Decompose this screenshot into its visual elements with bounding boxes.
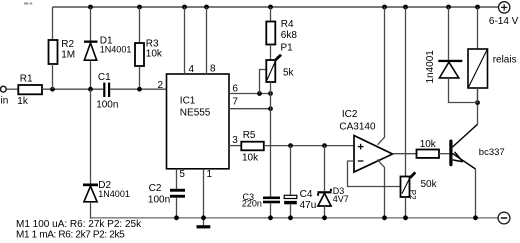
transistor Q1 bc337: [449, 124, 477, 169]
diode D1: [84, 41, 98, 61]
node junction P1 bottom pin6: [268, 91, 273, 96]
diode D4 1n4001 flyback: [438, 60, 462, 78]
svg-text:C2: C2: [149, 183, 162, 194]
wire P1 to pin6 pin7 to C3: [270, 82, 272, 197]
wire 10k to base: [439, 153, 449, 155]
wire R1 to C1 input row: [42, 88, 103, 90]
node junction pin7: [268, 106, 273, 111]
node junction R4 top rail: [268, 5, 273, 10]
wire pin 5 to C2: [176, 169, 178, 189]
op-amp IC1 NE555 box: [167, 74, 230, 169]
resistor R5: [241, 142, 263, 151]
node junction R2 bottom: [50, 87, 55, 92]
svg-text:P1: P1: [281, 43, 294, 54]
svg-text:100n: 100n: [96, 100, 118, 111]
resistor base 10k: [417, 150, 440, 158]
diode D2: [83, 184, 98, 202]
wire D1 to input row: [90, 60, 92, 89]
node junction C4 top: [288, 143, 293, 148]
wire op-amp V- supply: [377, 160, 384, 219]
svg-text:bc337: bc337: [479, 147, 505, 158]
wire top rail to P2: [405, 7, 407, 177]
node junction emitter bottom rail: [473, 215, 478, 220]
resistor R1: [18, 85, 42, 94]
wire C2 to bottom rail: [176, 198, 178, 219]
node junction D1 top rail: [88, 5, 93, 10]
svg-text:2: 2: [158, 80, 164, 91]
node junction P2 bottom rail: [403, 215, 408, 220]
node junction pin4 top rail: [182, 5, 187, 10]
node junction C4 bottom rail: [288, 215, 293, 220]
wire C3 to bottom rail: [270, 203, 272, 218]
resistor R3: [135, 43, 144, 66]
potentiometer P1: [266, 55, 281, 82]
node junction D3 bottom rail: [322, 215, 327, 220]
wire R4 to P1: [270, 45, 272, 61]
svg-text:1: 1: [207, 169, 213, 180]
svg-text:1n4001: 1n4001: [425, 50, 436, 84]
node junction D3 top: [322, 143, 327, 148]
svg-text:NE555: NE555: [180, 107, 211, 118]
svg-text:R5: R5: [243, 130, 256, 141]
wire pin 8 to top rail: [206, 7, 208, 74]
diode D3 zener: [317, 189, 332, 206]
wire P2 to bottom rail: [405, 197, 407, 218]
svg-text:relais: relais: [493, 55, 517, 66]
svg-text:R4: R4: [281, 19, 294, 30]
node junction C3 bottom rail: [268, 215, 273, 220]
node junction relay top rail: [475, 5, 480, 10]
svg-text:10k: 10k: [242, 153, 259, 164]
wire P1 wiper to pin6: [260, 70, 267, 94]
svg-text:IC2: IC2: [342, 109, 358, 120]
node junction pin8 top rail: [204, 5, 209, 10]
wire top rail to D1: [90, 7, 92, 41]
svg-text:in: in: [1, 96, 9, 107]
svg-text:1N4001: 1N4001: [98, 189, 130, 199]
svg-text:C4: C4: [300, 189, 313, 200]
op-amp IC2: [354, 136, 393, 173]
wire input row to D2: [90, 89, 92, 183]
wire op-amp inverting input feedback: [348, 161, 401, 187]
node junction R3 top rail: [137, 5, 142, 10]
svg-text:3: 3: [232, 135, 238, 146]
wire R3 to input row: [139, 66, 141, 89]
wire op-amp V+ supply: [378, 7, 385, 145]
wire top rail to diode D4: [448, 7, 450, 60]
node junction diode 1n4001 top rail: [446, 5, 451, 10]
svg-text:7: 7: [232, 97, 238, 108]
wire op-amp output: [393, 153, 417, 155]
svg-text:220n: 220n: [242, 198, 262, 208]
ground: [197, 225, 211, 228]
wire D2 to bottom rail: [90, 202, 92, 219]
node - supply terminal: [498, 212, 510, 224]
wire pin 3 to R5: [229, 145, 241, 147]
wire relay to collector node: [477, 88, 479, 103]
node junction R3 input row: [137, 87, 142, 92]
capacitor C2: [170, 189, 185, 198]
capacitor C4: [284, 195, 297, 204]
svg-text:IC1: IC1: [180, 95, 196, 106]
svg-text:R2: R2: [61, 39, 74, 50]
wire collector to relay node: [477, 88, 479, 124]
wire top rail to R3: [139, 7, 141, 43]
svg-text:6k8: 6k8: [281, 30, 298, 41]
svg-text:P2: P2: [408, 190, 417, 200]
wire emitter to bottom rail: [475, 169, 477, 218]
svg-text:CA3140: CA3140: [339, 121, 376, 132]
wire pin 6 row: [229, 93, 271, 95]
node junction pin1 bottom rail: [201, 215, 206, 220]
svg-text:100n: 100n: [148, 194, 170, 205]
wire left supply drop to R2: [52, 7, 54, 40]
relay K1: [468, 49, 488, 88]
svg-text:R1: R1: [20, 73, 33, 84]
resistor R2: [49, 40, 58, 64]
wire bottom ground rail: [90, 217, 498, 219]
wire D3 to bottom rail: [324, 206, 326, 218]
svg-text:47u: 47u: [300, 200, 317, 211]
resistor R4: [266, 22, 275, 45]
capacitor C1: [103, 83, 110, 97]
wire C1 to IC1 pin 2: [110, 88, 166, 90]
svg-text:4V7: 4V7: [333, 194, 349, 204]
wire C4 drop: [290, 146, 292, 196]
node junction relay diode collector: [475, 100, 480, 105]
svg-text:1M: 1M: [61, 49, 75, 60]
node junction op-amp V- bottom rail: [382, 215, 387, 220]
svg-text:50k: 50k: [421, 179, 438, 190]
svg-text:1k: 1k: [17, 96, 29, 107]
svg-text:8: 8: [210, 64, 216, 75]
wire C4 to bottom rail: [290, 204, 292, 218]
node junction wiper pin6: [257, 91, 262, 96]
potentiometer P2: [401, 172, 416, 197]
wire top rail to R4: [270, 7, 272, 22]
svg-text:5k: 5k: [283, 67, 295, 78]
wire input terminal to R1: [6, 88, 18, 90]
capacitor C3: [263, 197, 280, 204]
svg-text:6: 6: [232, 83, 238, 94]
wire R2 bottom to input row: [52, 64, 54, 89]
wire top supply rail: [53, 6, 499, 8]
svg-text:M1 1 mA: R6: 2k7 P2: 2k5: M1 1 mA: R6: 2k7 P2: 2k5: [16, 229, 125, 240]
node junction D1 D2 input row: [88, 87, 93, 92]
svg-text:6-14 V: 6-14 V: [489, 16, 519, 27]
svg-text:1N4001: 1N4001: [100, 45, 132, 55]
wire D3 drop: [324, 146, 326, 192]
wire pin 1 to ground: [203, 169, 205, 225]
svg-text:10k: 10k: [146, 49, 163, 60]
svg-text:4: 4: [189, 64, 195, 75]
wire diode D4 to relay bottom node: [449, 78, 478, 103]
node + supply terminal: [499, 2, 510, 13]
decorative top-left dashes: [24, 3, 32, 5]
node junction op-amp V+ top rail: [382, 5, 387, 10]
wire top rail to relay: [477, 7, 479, 49]
svg-text:5: 5: [179, 169, 185, 180]
svg-text:C1: C1: [98, 72, 111, 83]
svg-text:10k: 10k: [420, 139, 437, 150]
wire R5 to op-amp + input: [264, 145, 355, 147]
node input terminal: [0, 86, 6, 92]
wire pin 7 row: [229, 108, 271, 110]
wire pin 4 to top rail: [184, 7, 186, 74]
node junction P2 top rail: [403, 5, 408, 10]
node junction C2 bottom rail: [174, 215, 179, 220]
